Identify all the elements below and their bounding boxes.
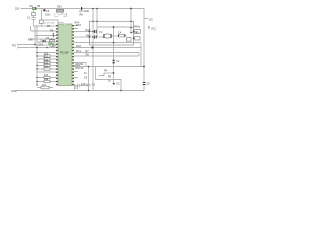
svg-text:12V: 12V [149, 18, 154, 21]
svg-text:R16: R16 [44, 79, 49, 81]
svg-text:x1 x2 x3 x4: x1 x2 x3 x4 [44, 23, 55, 25]
svg-text:R14: R14 [44, 66, 49, 68]
svg-text:PIC16F: PIC16F [60, 50, 69, 54]
svg-text:R15: R15 [44, 75, 49, 77]
svg-text:RC1: RC1 [76, 50, 82, 53]
svg-text:R30: R30 [57, 5, 62, 8]
svg-text:RB0: RB0 [28, 39, 33, 42]
svg-text:RA2: RA2 [86, 35, 91, 38]
svg-text:VCC: VCC [151, 27, 156, 30]
svg-text:GND: GND [11, 90, 17, 93]
svg-text:TP1: TP1 [12, 45, 17, 48]
svg-text:RA0: RA0 [86, 29, 91, 32]
svg-text:100n: 100n [45, 13, 51, 16]
svg-text:RA5: RA5 [76, 24, 81, 27]
svg-text:R13: R13 [44, 63, 49, 65]
svg-text:o1 o2: o1 o2 [59, 22, 65, 24]
svg-text:ZD1: ZD1 [39, 43, 44, 46]
svg-text:100n: 100n [81, 83, 87, 86]
svg-text:4MHz: 4MHz [134, 25, 141, 28]
svg-text:REL: REL [134, 31, 139, 34]
svg-text:RA4: RA4 [75, 22, 80, 25]
svg-text:R17: R17 [42, 85, 47, 87]
svg-text:R10: R10 [44, 53, 49, 55]
svg-text:R12: R12 [44, 60, 49, 62]
svg-text:220: 220 [15, 7, 20, 10]
svg-text:RC0: RC0 [76, 45, 82, 48]
